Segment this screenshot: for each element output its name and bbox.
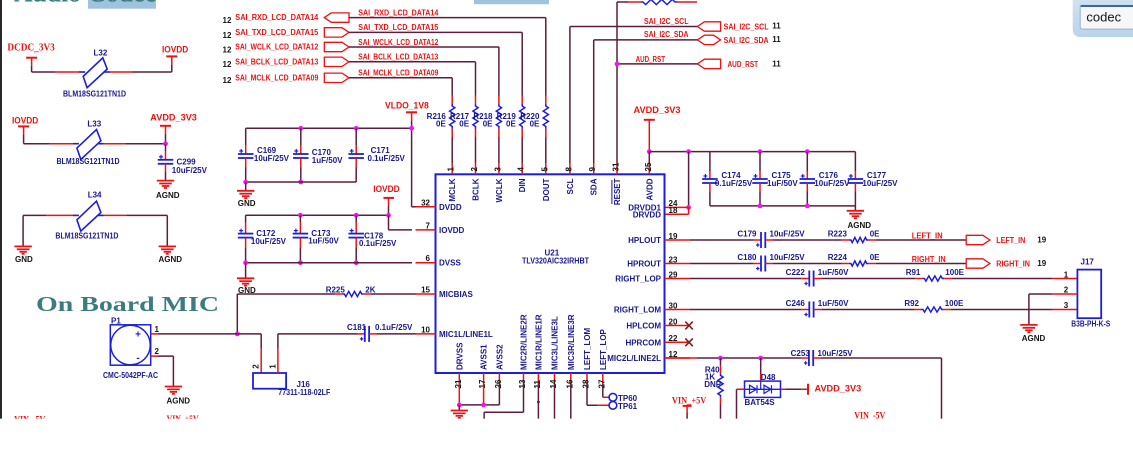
power net VLDO_1V8	[385, 101, 429, 129]
wire R92 to J17 pin3	[951, 309, 1078, 311]
svg-text:R91: R91	[906, 268, 921, 277]
svg-text:RESET: RESET	[613, 178, 622, 205]
svg-text:SAI_TXD_LCD_DATA15: SAI_TXD_LCD_DATA15	[358, 23, 438, 32]
svg-text:MCLK: MCLK	[448, 178, 457, 201]
off-page connector SAI_RXD_LCD_DATA14	[223, 13, 350, 25]
pin 14 MIC3L/LINE3L	[549, 316, 560, 388]
wire bank2 bottom rail to DVSS pin6	[243, 260, 412, 278]
svg-text:RIGHT_LOM: RIGHT_LOM	[614, 306, 661, 315]
svg-text:11: 11	[533, 379, 542, 388]
pin 5 DOUT	[540, 163, 551, 201]
svg-text:1: 1	[269, 364, 278, 369]
svg-text:C253: C253	[791, 349, 811, 358]
net label SAI_TXD_LCD_DATA15	[358, 23, 438, 32]
svg-text:12: 12	[223, 76, 232, 85]
svg-text:2: 2	[1064, 285, 1069, 294]
svg-text:10uF/25V: 10uF/25V	[770, 230, 806, 239]
off-page connector SAI_TXD_LCD_DATA15	[223, 28, 350, 40]
svg-text:MIC2L/LINE2L: MIC2L/LINE2L	[607, 354, 661, 363]
svg-text:100E: 100E	[945, 299, 964, 308]
net label SAI_BCLK_LCD_DATA13	[358, 53, 438, 62]
svg-text:WCLK: WCLK	[495, 178, 504, 202]
ferrite bead L32 BLM18SG121TN1D	[63, 48, 126, 98]
resistor R224 0E	[773, 253, 880, 266]
wire SAI_TXD_LCD_DATA15 to resistor	[349, 32, 522, 104]
wire MIC2R/LINE2R	[484, 384, 523, 419]
resistor R223 0E	[773, 230, 880, 243]
svg-text:DOUT: DOUT	[542, 178, 551, 201]
off-page connector SAI_MCLK_LCD_DATA09	[223, 73, 350, 85]
wire MIC3R/LINE3R	[570, 384, 572, 419]
svg-text:LEFT_LOP: LEFT_LOP	[599, 328, 608, 370]
svg-text:0E: 0E	[483, 120, 493, 129]
svg-text:30: 30	[669, 301, 678, 310]
svg-text:6: 6	[426, 254, 431, 263]
svg-text:AVDD_3V3: AVDD_3V3	[815, 384, 862, 395]
wire SDA to pin9	[594, 40, 698, 163]
svg-text:7: 7	[426, 221, 431, 230]
svg-text:23: 23	[669, 255, 678, 264]
off-page connector AUD_RST	[697, 59, 781, 69]
svg-text:HPLOUT: HPLOUT	[628, 236, 661, 245]
svg-text:R224: R224	[828, 253, 848, 262]
capacitor C171 0.1uF/25V	[348, 126, 405, 182]
svg-text:Audio Codec: Audio Codec	[14, 0, 156, 7]
capacitor C181 0.1uF/25V	[347, 323, 416, 342]
no-connect X (HPLCOM)	[685, 322, 693, 330]
svg-text:HPLCOM: HPLCOM	[626, 322, 661, 331]
svg-text:MIC1L/LINE1L: MIC1L/LINE1L	[439, 330, 493, 339]
ground AGND (L34 right)	[159, 246, 183, 264]
wire mic pin1 to J16 pin2	[157, 334, 261, 373]
svg-text:HPROUT: HPROUT	[627, 260, 661, 269]
capacitor C175 1uF/50V	[752, 149, 798, 206]
pin 10 MIC1L/LINE1L	[416, 325, 493, 339]
svg-text:codec: codec	[1086, 9, 1121, 24]
pin 31 RESET overbar	[611, 180, 613, 204]
svg-text:29: 29	[669, 270, 678, 279]
power net DCDC_3V3	[7, 43, 54, 73]
power net VIN_-5V (bottom left, clipped)	[14, 416, 45, 426]
wire D48 left pin down	[737, 389, 745, 418]
ground GND (chip)	[451, 411, 468, 418]
page border	[0, 0, 2, 419]
svg-text:1uF/50V: 1uF/50V	[308, 237, 339, 246]
ferrite bead L33 BLM18SG121TN1D	[57, 119, 120, 166]
pin 6 DVSS	[416, 254, 462, 268]
svg-text:BCLK: BCLK	[472, 178, 481, 200]
svg-text:12: 12	[223, 31, 232, 40]
svg-text:C181: C181	[347, 323, 367, 332]
svg-text:AUD_RST: AUD_RST	[636, 55, 665, 64]
svg-text:SAI_I2C_SCL: SAI_I2C_SCL	[644, 17, 689, 26]
svg-text:32: 32	[421, 198, 430, 207]
ground GND (bank1)	[237, 191, 256, 208]
wire row3	[23, 215, 167, 246]
svg-text:10uF/25V: 10uF/25V	[254, 154, 290, 163]
svg-text:1uF/50V: 1uF/50V	[818, 299, 849, 308]
svg-text:0E: 0E	[436, 120, 446, 129]
svg-text:10: 10	[421, 325, 430, 334]
svg-text:15: 15	[421, 286, 430, 295]
svg-text:10uF/25V: 10uF/25V	[814, 179, 850, 188]
svg-text:J17: J17	[1081, 258, 1095, 267]
svg-text:3: 3	[493, 167, 502, 172]
off-page connector SAI_I2C_SDA	[697, 35, 781, 45]
svg-text:0E: 0E	[870, 253, 880, 262]
svg-text:4: 4	[517, 167, 526, 172]
clipped page title "Audio Codec"	[14, 0, 156, 7]
svg-text:IOVDD: IOVDD	[373, 184, 399, 195]
svg-text:BAT54S: BAT54S	[745, 398, 776, 407]
svg-text:AGND: AGND	[159, 255, 183, 264]
svg-text:LEFT_LOM: LEFT_LOM	[583, 327, 592, 370]
svg-text:AVSS1: AVSS1	[480, 344, 489, 370]
svg-text:SAI_WCLK_LCD_DATA12: SAI_WCLK_LCD_DATA12	[235, 43, 318, 52]
pin 2 BCLK	[470, 163, 481, 201]
wire row1	[32, 71, 172, 73]
op-amp U21 TLV320AIC32IRHBT (codec IC)	[436, 174, 665, 373]
power net VIN_-5V (bottom right, clipped)	[854, 411, 885, 421]
wire SAI_MCLK_LCD_DATA09 to resistor	[349, 78, 452, 104]
svg-text:IOVDD: IOVDD	[439, 226, 465, 235]
wire SCL to pin8	[570, 27, 698, 164]
svg-text:SAI_RXD_LCD_DATA14: SAI_RXD_LCD_DATA14	[235, 13, 319, 22]
svg-text:LEFT_IN: LEFT_IN	[996, 236, 1025, 245]
wire MIC1R/LINE1R	[537, 384, 540, 419]
resistor R216 0E	[427, 104, 455, 163]
svg-text:GND: GND	[238, 199, 256, 208]
svg-text:DNP: DNP	[704, 380, 722, 389]
pin 8 SCL	[564, 163, 575, 195]
pin 3 WCLK	[493, 163, 504, 203]
capacitor C169 10uF/25V	[238, 128, 290, 182]
svg-text:DRVSS: DRVSS	[455, 342, 464, 370]
pin 22 HPRCOM	[625, 334, 690, 347]
no-connect X (HPRCOM)	[685, 338, 693, 346]
svg-text:VIN_+5V: VIN_+5V	[672, 396, 707, 406]
svg-text:RIGHT_LOP: RIGHT_LOP	[615, 275, 661, 284]
pin 13 MIC2R/LINE2R	[518, 314, 529, 388]
svg-text:BLM18SG121TN1D: BLM18SG121TN1D	[57, 157, 120, 166]
search highlight second occurrence	[474, 0, 549, 4]
svg-text:VLDO_1V8: VLDO_1V8	[385, 101, 429, 112]
svg-text:1uF/50V: 1uF/50V	[818, 268, 849, 277]
search input with text codec	[1080, 5, 1133, 29]
svg-text:MIC1R/LINE1R: MIC1R/LINE1R	[534, 314, 543, 370]
svg-text:AVDD: AVDD	[645, 178, 654, 200]
pin 15 MICBIAS	[416, 286, 474, 300]
pin 1 MCLK	[447, 163, 458, 202]
svg-text:RIGHT_IN: RIGHT_IN	[912, 255, 946, 264]
pin 26 AVSS2	[494, 344, 505, 389]
svg-text:11: 11	[772, 35, 781, 44]
capacitor C176 10uF/25V	[800, 149, 851, 206]
svg-text:On Board MIC: On Board MIC	[36, 292, 219, 316]
diode D48 BAT54S	[745, 358, 781, 407]
wire SAI_WCLK_LCD_DATA12 to resistor	[349, 47, 499, 104]
ground AGND (bank3)	[847, 211, 872, 230]
capacitor C222 1uF/50V	[690, 268, 849, 286]
svg-text:C246: C246	[786, 299, 806, 308]
net label SAI_MCLK_LCD_DATA09	[358, 69, 438, 78]
svg-text:+: +	[135, 330, 141, 341]
pin 11 MIC1R/LINE1R	[533, 314, 544, 388]
svg-text:27: 27	[597, 379, 606, 388]
wire bank1 bottom rail	[243, 180, 356, 191]
capacitor C299 10uF/25V	[158, 144, 208, 180]
off-page connector SAI_BCLK_LCD_DATA13	[223, 57, 350, 69]
svg-text:L32: L32	[94, 48, 108, 57]
svg-text:12: 12	[223, 45, 232, 54]
svg-text:SAI_MCLK_LCD_DATA09: SAI_MCLK_LCD_DATA09	[235, 73, 318, 82]
resistor R92 100E	[821, 299, 964, 312]
resistor pull-up (clipped at top)	[617, 0, 697, 5]
power net VIN_+5V	[672, 396, 707, 418]
svg-text:R225: R225	[326, 286, 346, 295]
resistor R40 1K DNP	[704, 358, 723, 419]
svg-text:BLM18SG121TN1D: BLM18SG121TN1D	[63, 89, 126, 98]
svg-text:RIGHT_IN: RIGHT_IN	[996, 260, 1030, 269]
node AVDD_3V3/C299 junction	[163, 141, 168, 146]
wire VLDO rail to DVDD pin32	[246, 126, 416, 207]
svg-text:AGND: AGND	[167, 396, 191, 405]
svg-text:10uF/25V: 10uF/25V	[251, 237, 287, 246]
pin 24 DRVDD1	[628, 199, 678, 212]
ground AGND (J17)	[1020, 325, 1045, 343]
svg-text:8: 8	[564, 167, 573, 172]
svg-text:0E: 0E	[506, 120, 516, 129]
svg-text:1: 1	[1064, 270, 1069, 279]
pin 21 DRVSS	[454, 342, 465, 389]
svg-text:9: 9	[588, 167, 597, 172]
ground GND (L34 left)	[14, 246, 33, 264]
resistor R91 100E	[821, 268, 964, 281]
off-page connector LEFT_IN	[966, 235, 1047, 245]
svg-text:19: 19	[1037, 259, 1046, 268]
svg-text:MIC3L/LINE3L: MIC3L/LINE3L	[551, 316, 560, 370]
svg-text:3: 3	[1064, 301, 1069, 310]
net label SAI_RXD_LCD_DATA14	[358, 8, 438, 17]
wire J16 pin1 to C181	[278, 334, 358, 373]
svg-text:26: 26	[494, 379, 503, 388]
net label AUD_RST	[636, 55, 665, 64]
svg-text:0.1uF/25V: 0.1uF/25V	[375, 323, 413, 332]
test point TP61	[587, 384, 638, 411]
wire R91 to J17 pin1	[951, 278, 1077, 280]
power net IOVDD (row2)	[12, 115, 38, 143]
svg-text:L33: L33	[87, 119, 101, 128]
wire mic pin2 to AGND	[157, 356, 173, 386]
net label SAI_I2C_SCL	[644, 17, 689, 26]
capacitor C172 10uF/25V	[238, 215, 287, 263]
ground AGND (mic)	[165, 387, 191, 406]
wire C253 output down	[821, 358, 942, 419]
pin 23 HPROUT	[627, 255, 690, 268]
svg-text:77311-118-02LF: 77311-118-02LF	[278, 388, 330, 397]
pin 12 MIC2L/LINE2L	[607, 350, 690, 363]
net label SAI_I2C_SDA	[644, 30, 689, 39]
net label LEFT_IN	[876, 231, 967, 240]
svg-text:R92: R92	[904, 299, 919, 308]
wire bank2 top rail / IOVDD to pin7	[246, 213, 412, 230]
pin 32 DVDD	[416, 198, 462, 212]
svg-text:DIN: DIN	[518, 178, 527, 192]
svg-text:0.1uF/25V: 0.1uF/25V	[715, 179, 753, 188]
pin 16 MIC3R/LINE3R	[565, 314, 576, 388]
svg-text:AUD_RST: AUD_RST	[728, 60, 759, 69]
svg-text:0E: 0E	[870, 230, 880, 239]
capacitor C253 10uF/25V	[791, 349, 854, 366]
svg-text:SAI_I2C_SCL: SAI_I2C_SCL	[724, 23, 769, 32]
pin 28 LEFT_LOM	[582, 327, 593, 388]
svg-text:1uF/50V: 1uF/50V	[312, 156, 343, 165]
pin 4 DIN	[517, 163, 528, 192]
pin 25 AVDD	[644, 162, 655, 201]
svg-text:1: 1	[447, 167, 456, 172]
svg-text:1uF/50V: 1uF/50V	[767, 179, 798, 188]
svg-text:DCDC_3V3: DCDC_3V3	[7, 43, 54, 54]
svg-text:31: 31	[612, 162, 621, 171]
svg-text:CMC-5042PF-AC: CMC-5042PF-AC	[103, 371, 158, 380]
ground GND (bank2)	[237, 278, 256, 295]
svg-text:2: 2	[470, 167, 479, 172]
svg-text:19: 19	[669, 232, 678, 241]
wire AVDD to DRVDD pins	[665, 149, 691, 214]
svg-text:MIC2R/LINE2R: MIC2R/LINE2R	[520, 314, 529, 370]
power net IOVDD (bank2)	[373, 184, 399, 215]
svg-text:22: 22	[669, 334, 678, 343]
search highlight on title word Codec	[88, 0, 156, 9]
svg-text:SCL: SCL	[566, 178, 575, 194]
power net VIN_+5V (bottom center, clipped)	[167, 415, 199, 425]
svg-text:SAI_BCLK_LCD_DATA13: SAI_BCLK_LCD_DATA13	[235, 57, 318, 66]
svg-text:DRVDD: DRVDD	[633, 210, 662, 219]
wire AVDD rail	[647, 149, 856, 171]
off-page connector SAI_I2C_SCL	[697, 22, 781, 32]
resistor R218 0E	[473, 104, 501, 163]
wire AUD_RST to pin31	[615, 2, 698, 163]
svg-text:D48: D48	[761, 373, 776, 382]
svg-text:AVSS2: AVSS2	[495, 344, 504, 370]
pin 19 HPLOUT	[628, 232, 690, 245]
svg-text:10uF/25V: 10uF/25V	[770, 253, 806, 262]
svg-text:R223: R223	[828, 230, 848, 239]
svg-text:C222: C222	[786, 268, 806, 277]
capacitor C177 10uF/25V	[848, 171, 899, 206]
ferrite bead L34 BLM18SG121TN1D	[55, 191, 118, 241]
power net IOVDD (row1)	[162, 44, 188, 72]
capacitor C178 0.1uF/25V	[348, 213, 397, 265]
svg-text:2K: 2K	[365, 286, 375, 295]
power net AVDD_3V3 (top)	[634, 105, 681, 152]
capacitor C246 1uF/50V	[690, 299, 849, 317]
svg-text:28: 28	[582, 379, 591, 388]
svg-text:21: 21	[454, 379, 463, 388]
svg-text:10uF/25V: 10uF/25V	[172, 166, 208, 175]
svg-text:L34: L34	[88, 191, 102, 200]
svg-text:17: 17	[478, 379, 487, 388]
svg-text:C180: C180	[737, 253, 757, 262]
svg-text:AVDD_3V3: AVDD_3V3	[150, 113, 197, 124]
svg-text:10uF/25V: 10uF/25V	[818, 349, 854, 358]
capacitor C174 0.1uF/25V	[702, 152, 753, 206]
svg-text:DVDD: DVDD	[439, 203, 462, 212]
svg-text:0E: 0E	[530, 120, 540, 129]
svg-text:100E: 100E	[945, 268, 964, 277]
svg-text:MIC3R/LINE3R: MIC3R/LINE3R	[567, 314, 576, 370]
svg-text:TLV320AIC32IRHBT: TLV320AIC32IRHBT	[522, 257, 589, 266]
resistor R219 0E	[497, 104, 525, 163]
svg-text:18: 18	[669, 206, 678, 215]
svg-text:SAI_MCLK_LCD_DATA09: SAI_MCLK_LCD_DATA09	[358, 69, 438, 78]
pin 7 IOVDD	[416, 221, 465, 235]
svg-text:1: 1	[155, 325, 160, 334]
pin 17 AVSS1	[478, 344, 489, 389]
svg-text:AGND: AGND	[1022, 334, 1046, 343]
svg-text:5: 5	[540, 167, 549, 172]
svg-text:SAI_I2C_SDA: SAI_I2C_SDA	[644, 30, 689, 39]
svg-text:19: 19	[1037, 235, 1046, 244]
svg-text:0.1uF/25V: 0.1uF/25V	[368, 154, 406, 163]
svg-text:0.1uF/25V: 0.1uF/25V	[359, 239, 397, 248]
svg-text:13: 13	[518, 379, 527, 388]
ground AGND (C299)	[156, 181, 180, 200]
pin 29 RIGHT_LOP	[615, 270, 690, 283]
search panel	[1073, 0, 1133, 37]
svg-text:HPRCOM: HPRCOM	[625, 338, 661, 347]
svg-text:TP61: TP61	[618, 402, 638, 411]
svg-text:AVDD_3V3: AVDD_3V3	[634, 105, 681, 116]
connector J16 77311-118-02LF	[252, 364, 331, 397]
wire J17 pin2 to AGND	[1029, 294, 1078, 325]
power net AVDD_3V3 (D48)	[781, 384, 862, 395]
svg-text:20: 20	[669, 317, 678, 326]
net label SAI_WCLK_LCD_DATA12	[358, 38, 438, 47]
section title On Board MIC	[36, 292, 219, 316]
svg-text:2: 2	[252, 364, 261, 369]
svg-text:DVSS: DVSS	[439, 259, 461, 268]
off-page connector RIGHT_IN	[966, 259, 1047, 269]
wire DRVSS/AVSS ground bus	[457, 384, 500, 411]
wire row2	[24, 143, 166, 145]
svg-text:MICBIAS: MICBIAS	[439, 290, 473, 299]
capacitor C170 1uF/50V	[293, 126, 343, 185]
pin 31 RESET	[612, 162, 623, 205]
pin 30 RIGHT_LOM	[614, 301, 690, 314]
svg-text:GND: GND	[15, 255, 33, 264]
svg-text:C179: C179	[737, 230, 757, 239]
svg-text:IOVDD: IOVDD	[12, 115, 38, 126]
connector J17 B3B-PH-K-S	[1064, 258, 1111, 329]
svg-text:10uF/25V: 10uF/25V	[862, 179, 898, 188]
svg-text:BLM18SG121TN1D: BLM18SG121TN1D	[55, 231, 118, 240]
svg-text:B3B-PH-K-S: B3B-PH-K-S	[1071, 320, 1111, 329]
svg-text:LEFT_IN: LEFT_IN	[912, 231, 943, 240]
test point TP60	[603, 384, 638, 403]
svg-text:14: 14	[549, 379, 558, 388]
wire SAI_BCLK_LCD_DATA13 to resistor	[349, 62, 476, 104]
svg-text:AGND: AGND	[156, 191, 180, 200]
svg-text:2: 2	[155, 347, 160, 356]
wire SAI_RXD_LCD_DATA14 to resistor	[349, 18, 546, 104]
svg-text:SAI_I2C_SDA: SAI_I2C_SDA	[724, 36, 769, 45]
wire MICBIAS to mic junction	[235, 294, 240, 336]
wire bank3 bottom rail	[710, 204, 856, 211]
svg-text:IOVDD: IOVDD	[162, 44, 188, 55]
svg-text:25: 25	[644, 162, 653, 171]
resistor R225 2K	[237, 286, 415, 297]
